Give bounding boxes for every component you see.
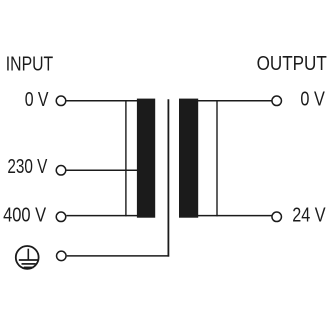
wire secondary to 0V output: [197, 100, 272, 102]
value label 400 V: [3, 204, 47, 226]
protective earth ground symbol: [16, 246, 39, 269]
wire secondary to 24V output: [197, 215, 272, 217]
label INPUT: [6, 54, 53, 76]
terminal 400V input: [56, 212, 66, 222]
svg-text:230 V: 230 V: [7, 156, 48, 178]
svg-text:INPUT: INPUT: [6, 54, 53, 76]
transformer T1 primary winding: [126, 99, 155, 218]
label OUTPUT: [257, 53, 327, 75]
terminal 0V input: [56, 96, 66, 106]
svg-text:0 V: 0 V: [300, 88, 325, 110]
value label 0 V (output): [300, 88, 325, 110]
terminal 230V input: [56, 166, 66, 176]
wire earth terminal to screen: [67, 255, 169, 257]
terminal 24V output: [272, 212, 282, 222]
transformer T1 secondary winding: [179, 99, 217, 218]
wire 0V input to primary: [66, 100, 138, 102]
wire 400V input to primary: [66, 215, 138, 217]
wire 230V tap to primary: [66, 169, 138, 171]
value label 24 V: [292, 204, 326, 226]
terminal earth: [57, 251, 67, 261]
value label 0 V (input): [25, 89, 49, 111]
electrostatic screen: [167, 99, 169, 256]
svg-text:400 V: 400 V: [3, 204, 47, 226]
value label 230 V: [7, 156, 48, 178]
svg-text:24 V: 24 V: [292, 204, 326, 226]
svg-text:OUTPUT: OUTPUT: [257, 53, 327, 75]
terminal 0V output: [272, 96, 282, 106]
svg-text:0 V: 0 V: [25, 89, 49, 111]
